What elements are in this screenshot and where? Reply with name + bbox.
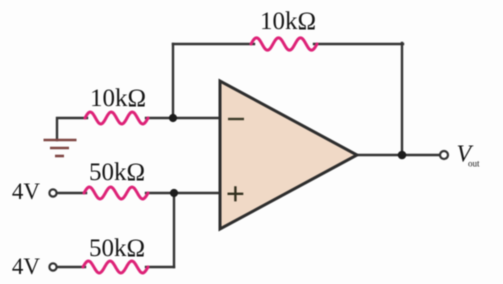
resistor R3 50k upper: [84, 187, 148, 199]
resistor R4 50k lower: [83, 261, 148, 273]
svg-text:10kΩ: 10kΩ: [260, 8, 316, 35]
op-amp U1: [220, 81, 357, 229]
svg-text:out: out: [468, 159, 480, 169]
svg-text:50kΩ: 50kΩ: [89, 159, 145, 186]
svg-text:4V: 4V: [12, 179, 41, 204]
wire noninverting input left: [58, 192, 86, 194]
terminal 4V lower: [49, 263, 56, 270]
ground: [44, 140, 77, 156]
wire bottom branch right: [146, 266, 174, 268]
wire node A vertical: [173, 193, 175, 267]
terminal Vout: [440, 151, 448, 159]
svg-text:10kΩ: 10kΩ: [90, 85, 146, 112]
op-amp plus pin: [228, 186, 244, 201]
node junction dot inverting: [169, 114, 177, 122]
svg-text:4V: 4V: [12, 254, 41, 279]
wire top feedback horizontal right: [314, 43, 403, 45]
wire ground stem: [57, 118, 87, 140]
resistor R1 10k feedback: [251, 38, 317, 50]
wire inverting input: [146, 117, 220, 119]
op-amp minus pin: [228, 118, 244, 120]
svg-text:50kΩ: 50kΩ: [89, 235, 145, 262]
wire output: [357, 154, 440, 156]
node junction dot noninverting: [170, 189, 178, 197]
wire noninverting input right: [146, 192, 220, 194]
wire top feedback horizontal left: [173, 43, 254, 45]
wire bottom branch left: [57, 266, 85, 268]
terminal 4V upper: [49, 189, 56, 196]
wire feedback right vertical: [401, 43, 403, 155]
node junction dot output: [398, 151, 407, 160]
wire feedback left vertical: [172, 44, 174, 118]
resistor R2 10k input: [85, 112, 148, 124]
